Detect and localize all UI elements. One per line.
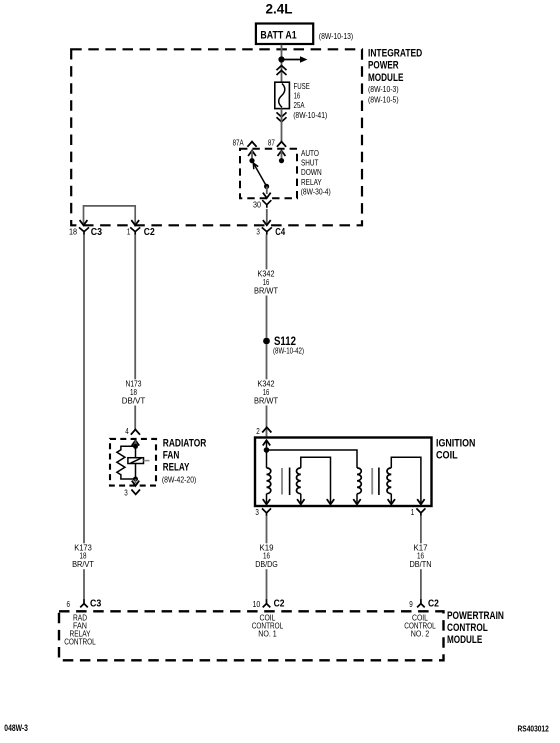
powertrain control module box (59, 611, 444, 660)
svg-text:MODULE: MODULE (447, 634, 482, 646)
ASD relay terminal 30 (263, 184, 271, 198)
splice S112 (263, 336, 304, 355)
svg-text:C2: C2 (274, 597, 285, 609)
svg-text:18: 18 (69, 226, 77, 236)
radiator fan relay terminal 4 arrow (132, 440, 139, 448)
junction node below BATT A1 (278, 56, 284, 62)
ASD relay label AUTO SHUT DOWN RELAY (301, 149, 331, 197)
svg-text:(8W-42-20): (8W-42-20) (162, 474, 197, 484)
svg-text:DB/TN: DB/TN (410, 559, 432, 569)
svg-text:(8W-10-41): (8W-10-41) (293, 110, 327, 120)
svg-text:048W-3: 048W-3 (4, 723, 28, 733)
svg-text:MODULE: MODULE (368, 72, 403, 84)
svg-text:2.4L: 2.4L (266, 1, 293, 17)
svg-text:6: 6 (67, 599, 71, 609)
svg-text:INTEGRATED: INTEGRATED (368, 48, 422, 60)
integrated power module box (71, 49, 362, 225)
svg-text:1: 1 (411, 507, 415, 517)
svg-text:SHUT: SHUT (301, 159, 318, 168)
ignition coil pin 1 (411, 507, 426, 517)
ignition coil T2 feed wire (267, 450, 358, 468)
ignition coil T1 core (282, 468, 290, 496)
svg-text:30: 30 (253, 199, 261, 209)
ignition coil label (436, 438, 475, 462)
IPM internal jumper wire (80, 206, 140, 225)
wire fuse to ASD relay pin 87 (281, 109, 283, 142)
label K19 16 DB/DG (253, 543, 280, 570)
connector C4 pin 3 (256, 226, 285, 238)
svg-text:87: 87 (268, 138, 275, 148)
svg-text:(8W-10-42): (8W-10-42) (273, 345, 304, 355)
svg-text:DB/VT: DB/VT (122, 396, 146, 406)
ASD relay switch arm (252, 161, 267, 187)
svg-text:16: 16 (294, 90, 301, 100)
svg-text:CONTROL: CONTROL (447, 622, 488, 634)
ignition coil T2 core (372, 468, 379, 496)
wire N173 (134, 235, 136, 430)
ignition coil input node (263, 440, 270, 453)
wire BATT A1 to fuse (281, 45, 283, 83)
ignition coil box (255, 438, 432, 507)
svg-text:BR/VT: BR/VT (72, 559, 94, 569)
PCM input COIL CONTROL NO. 2 (404, 613, 436, 639)
wire K17 (420, 516, 422, 600)
svg-text:3: 3 (124, 487, 128, 497)
svg-text:(8W-10-13): (8W-10-13) (319, 31, 354, 41)
battery feed BATT A1 (256, 24, 313, 45)
svg-text:(8W-30-4): (8W-30-4) (301, 188, 331, 197)
ASD relay box (240, 149, 297, 199)
svg-text:RADIATOR: RADIATOR (163, 437, 207, 449)
fuse F16 25A (275, 82, 290, 108)
connector C2 pin 9 (409, 597, 439, 609)
svg-text:FAN: FAN (163, 450, 180, 462)
svg-text:POWERTRAIN: POWERTRAIN (447, 610, 504, 622)
label K173 18 BR/VT (70, 543, 97, 570)
radiator fan relay box (110, 439, 156, 486)
fuse label (293, 81, 327, 120)
ignition coil pin 2 (256, 426, 271, 436)
svg-text:BR/WT: BR/WT (254, 286, 278, 296)
svg-text:10: 10 (253, 599, 261, 609)
svg-text:POWER: POWER (368, 60, 399, 72)
svg-text:BATT A1: BATT A1 (260, 30, 296, 42)
svg-text:87A: 87A (233, 138, 244, 148)
pin 87 (268, 138, 286, 148)
svg-text:C3: C3 (91, 226, 102, 238)
svg-text:CONTROL: CONTROL (64, 637, 96, 647)
ignition coil T1 secondary winding (296, 457, 334, 504)
radiator fan relay contact (128, 446, 150, 479)
ASD relay terminal 87A (248, 151, 256, 164)
svg-text:COIL: COIL (436, 450, 458, 462)
powertrain control module label (447, 610, 504, 646)
wire pin 30 to connector C4 (263, 209, 271, 225)
svg-text:(8W-10-5): (8W-10-5) (368, 94, 399, 104)
connector C3 pin 18 (69, 226, 102, 238)
svg-text:AUTO: AUTO (301, 149, 319, 158)
svg-text:(8W-10-3): (8W-10-3) (368, 84, 399, 94)
svg-text:RELAY: RELAY (301, 178, 322, 187)
svg-text:3: 3 (256, 226, 260, 236)
off-page connector chevrons below fuse (277, 112, 287, 122)
off-page connector chevrons above fuse (277, 66, 287, 76)
pin 87A (233, 138, 257, 148)
radiator fan relay pin 3 (124, 487, 140, 497)
label K342 16 BR/WT (upper) (252, 269, 281, 296)
wire K173 (83, 235, 85, 600)
svg-text:2: 2 (256, 426, 260, 436)
svg-text:DB/DG: DB/DG (255, 559, 278, 569)
wire K19 (266, 516, 268, 600)
wire K342 lower segment (266, 345, 268, 438)
ASD relay terminal 87 (278, 151, 286, 164)
svg-text:DOWN: DOWN (301, 168, 322, 177)
label K17 16 DB/TN (407, 543, 434, 570)
radiator fan relay terminal 3 (132, 477, 139, 486)
svg-text:RS403012: RS403012 (518, 723, 550, 733)
svg-text:C2: C2 (144, 226, 155, 238)
PCM input COIL CONTROL NO. 1 (252, 613, 284, 639)
PCM input RAD FAN RELAY CONTROL (64, 613, 96, 647)
ignition coil T2 secondary winding (387, 457, 425, 504)
connector C3 pin 6 (67, 597, 102, 609)
svg-text:IGNITION: IGNITION (436, 438, 475, 450)
svg-text:NO. 1: NO. 1 (258, 629, 277, 639)
ignition coil T1 primary winding (263, 450, 271, 504)
svg-text:25A: 25A (294, 100, 305, 110)
svg-text:C3: C3 (90, 597, 101, 609)
svg-text:4: 4 (125, 426, 129, 436)
label N173 18 DB/VT (119, 379, 148, 406)
connector C2 pin 10 (253, 597, 285, 609)
ignition coil pin 3 (255, 507, 271, 517)
radiator fan relay label (162, 437, 206, 484)
svg-text:RELAY: RELAY (163, 462, 190, 474)
svg-text:C2: C2 (428, 597, 439, 609)
integrated power module label (368, 48, 422, 105)
svg-text:9: 9 (409, 599, 413, 609)
svg-text:C4: C4 (275, 226, 285, 238)
arrow to other IPM circuits (282, 56, 308, 63)
connector C2 pin 1 (127, 226, 155, 238)
svg-text:3: 3 (255, 507, 259, 517)
ignition coil T2 primary winding (353, 468, 361, 504)
svg-text:BR/WT: BR/WT (254, 396, 278, 406)
label K342 16 BR/WT (lower) (252, 379, 281, 406)
svg-text:NO. 2: NO. 2 (411, 629, 430, 639)
radiator fan relay pin 4 (125, 426, 140, 436)
wire K342 upper segment (266, 235, 268, 338)
radiator fan relay coil (zigzag) (117, 446, 136, 479)
pin 30 (253, 199, 271, 209)
